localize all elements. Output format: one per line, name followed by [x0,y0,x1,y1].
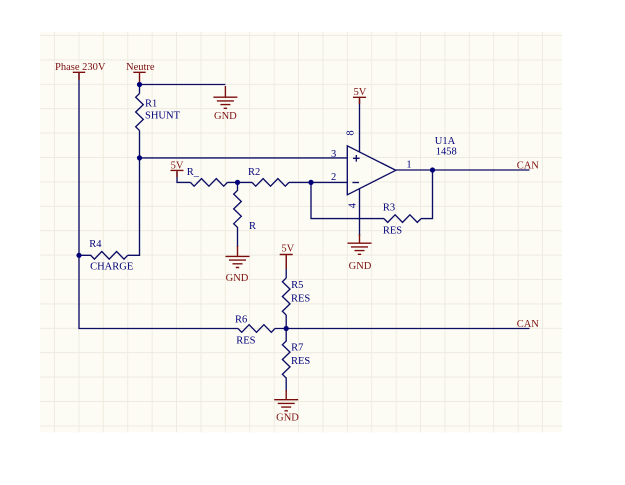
svg-text:RES: RES [236,336,255,347]
junction node: Neutre [137,82,142,87]
svg-text:R: R [249,221,256,232]
svg-text:RES: RES [291,294,310,305]
svg-text:CAN: CAN [517,161,540,172]
svg-text:Phase 230V: Phase 230V [55,62,106,73]
svg-text:4: 4 [347,202,358,208]
svg-text:R_: R_ [187,167,200,178]
svg-text:GND: GND [276,413,299,424]
schematic sheet background [40,32,562,433]
op-amp - symbol [352,182,359,184]
svg-text:U1A: U1A [435,136,456,147]
svg-text:GND: GND [214,111,237,122]
svg-text:3: 3 [331,149,336,160]
wire: output pin 1 to CAN [396,169,530,171]
power 5V (left, above R) [171,170,184,177]
resistor R7 (vertical zigzag) [282,329,290,393]
junction node: R1 bottom / pin3 [137,155,142,160]
ground GND under R7 [274,390,298,411]
resistor R4 (horizontal zigzag) [79,252,128,260]
resistor R3 (horizontal zigzag) [384,215,421,223]
svg-text:5V: 5V [281,244,294,255]
resistor R (vertical zigzag below junction) [234,182,242,247]
resistor R2 (horizontal zigzag) [252,179,289,187]
svg-text:R4: R4 [89,239,102,250]
svg-text:R5: R5 [291,280,303,291]
op-amp U1A triangle [347,146,396,195]
wire: pin 8 stub from 5V [359,99,361,152]
svg-text:2: 2 [331,172,336,183]
junction node: R5/R6/R7 [284,326,289,331]
svg-text:1458: 1458 [436,147,457,158]
wire: R5 bottom to junction [285,315,287,329]
resistor R5 (vertical zigzag) [282,278,290,315]
svg-text:5V: 5V [171,160,184,171]
port Neutre bar [133,72,145,82]
svg-text:R2: R2 [248,167,260,178]
port Phase 230V bar [73,72,85,80]
wire: R2 right to op-amp pin2 [289,181,347,183]
resistor R6 (horizontal zigzag) [238,325,275,333]
wire: Phase 230V rail down and bottom row to R6 [79,73,238,329]
wire: 5V left stem down to R row [177,172,190,182]
svg-text:1: 1 [406,160,411,171]
ground GND under R (middle) [226,246,250,268]
wire: pin 4 stub down to GND [359,189,361,236]
svg-text:CAN: CAN [517,319,540,330]
wire: vertical from pin3 junction down to R4 right terminal [128,158,140,255]
junction node: R / R2 [235,180,240,185]
svg-text:Neutre: Neutre [126,62,155,73]
resistor R (horizontal zigzag) [190,179,227,187]
svg-text:R6: R6 [235,315,247,326]
wire: R right to junction [227,181,252,183]
wire: R3 right up to output [421,170,433,219]
wire: bottom CAN row from R6 to right [275,328,530,330]
op-amp + symbol [353,155,360,162]
power 5V (bottom, above R5) [280,255,293,270]
junction node: output / R3 [430,167,435,172]
svg-text:CHARGE: CHARGE [90,262,133,273]
svg-text:GND: GND [226,273,249,284]
wire: Neutre junction down to R1 [139,85,141,94]
ground GND under op-amp pin 4 [348,234,372,254]
power 5V (above op-amp) [353,97,366,104]
resistor R1 (vertical zigzag) [136,94,144,131]
ground GND top (under Neutre wire) [213,86,237,108]
wire: feedback drop from pin2 row [311,182,384,218]
svg-text:GND: GND [349,261,372,272]
svg-text:R3: R3 [383,203,395,214]
wire: 5V bottom stem to R5 [285,256,287,278]
wire: pin3 row junction to op-amp [140,157,348,159]
junction node: feedback tap [308,180,313,185]
svg-text:RES: RES [291,356,310,367]
svg-text:8: 8 [346,130,357,135]
wire: Neutre stem junction to GND corner [140,84,226,86]
svg-text:SHUNT: SHUNT [145,111,181,122]
svg-text:R7: R7 [291,343,303,354]
svg-text:5V: 5V [353,87,366,98]
svg-text:RES: RES [383,226,402,237]
junction node: Phase / R4 [76,253,81,258]
svg-text:R1: R1 [145,99,157,110]
wire: R1 bottom to pin3 junction [139,131,141,158]
